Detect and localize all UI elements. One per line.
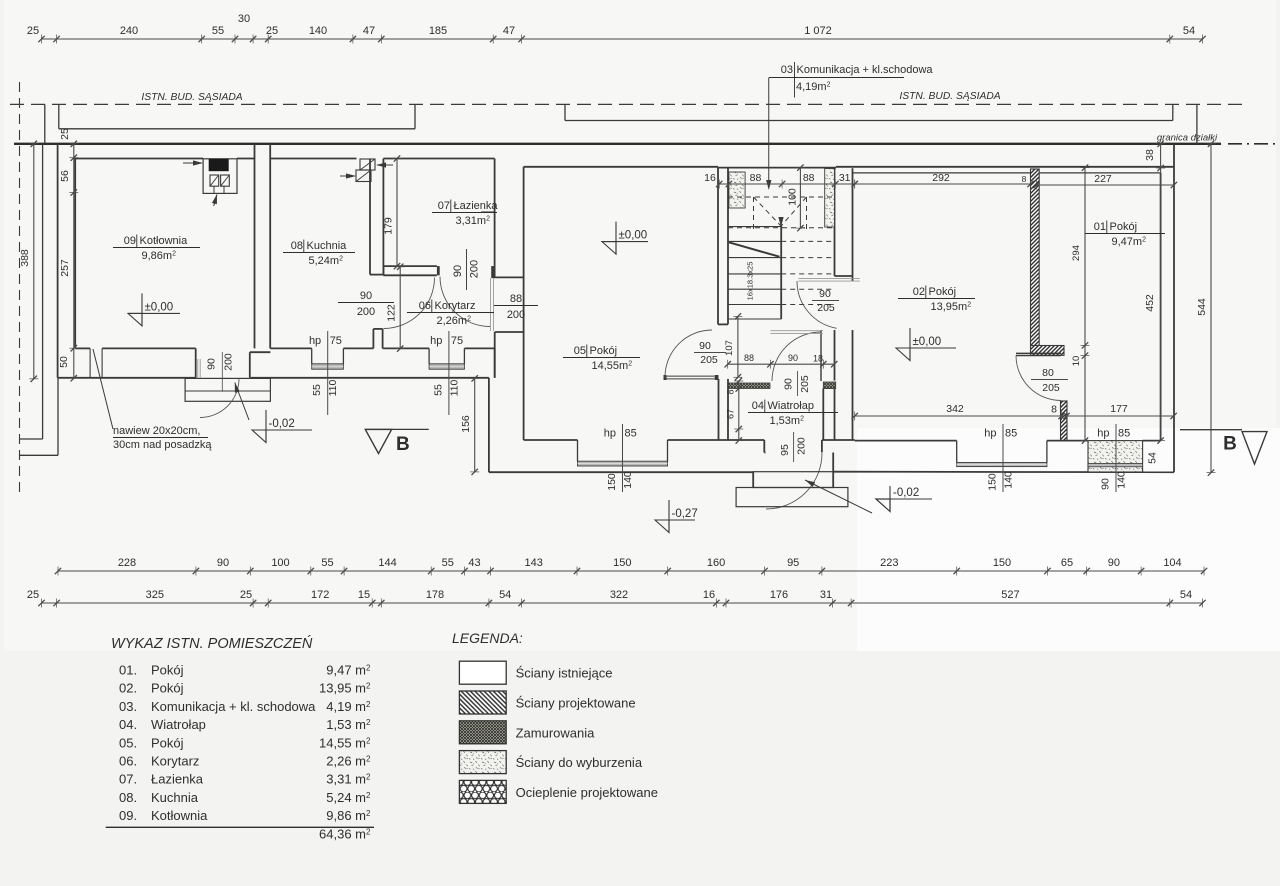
svg-text:hp: hp [309, 335, 321, 347]
svg-text:150: 150 [606, 473, 618, 491]
svg-text:55: 55 [442, 557, 454, 569]
svg-text:Pokój: Pokój [929, 286, 957, 298]
svg-text:Komunikacja + kl.schodowa: Komunikacja + kl.schodowa [797, 64, 934, 76]
svg-text:03: 03 [781, 64, 793, 76]
svg-text:88: 88 [750, 172, 762, 184]
svg-text:200: 200 [223, 353, 235, 371]
svg-text:342: 342 [946, 403, 964, 415]
svg-text:388: 388 [19, 249, 31, 267]
svg-text:8: 8 [1022, 174, 1027, 184]
svg-text:Ściany projektowane: Ściany projektowane [516, 696, 636, 711]
svg-text:88: 88 [803, 172, 815, 184]
svg-text:±0,00: ±0,00 [145, 301, 174, 313]
svg-text:2: 2 [366, 736, 371, 745]
svg-text:85: 85 [625, 428, 637, 440]
svg-text:2: 2 [366, 809, 371, 818]
svg-text:1 072: 1 072 [804, 25, 832, 37]
svg-text:54: 54 [1183, 25, 1195, 37]
svg-text:-0,02: -0,02 [893, 487, 919, 499]
svg-text:88: 88 [744, 353, 754, 363]
svg-text:322: 322 [610, 589, 628, 601]
svg-text:08: 08 [291, 240, 303, 252]
svg-text:110: 110 [327, 379, 339, 396]
svg-text:95: 95 [779, 444, 791, 456]
svg-text:3,31m2: 3,31m2 [456, 215, 491, 227]
svg-text:90: 90 [1100, 478, 1112, 490]
svg-text:90: 90 [788, 353, 798, 363]
svg-text:13,95m2: 13,95m2 [931, 301, 972, 313]
svg-text:200: 200 [507, 309, 525, 321]
svg-text:9,86m2: 9,86m2 [142, 250, 177, 262]
svg-text:8: 8 [726, 389, 736, 394]
svg-text:325: 325 [146, 589, 164, 601]
svg-text:144: 144 [378, 557, 396, 569]
svg-text:2: 2 [366, 682, 371, 691]
svg-text:4,19m2: 4,19m2 [796, 81, 831, 93]
svg-text:80: 80 [1042, 367, 1054, 379]
svg-text:Korytarz: Korytarz [435, 300, 476, 312]
svg-text:-0,27: -0,27 [672, 508, 698, 520]
svg-text:178: 178 [426, 589, 444, 601]
svg-text:85: 85 [1005, 428, 1017, 440]
svg-text:150: 150 [613, 557, 631, 569]
svg-text:Pokój: Pokój [1110, 221, 1138, 233]
svg-text:257: 257 [59, 259, 71, 277]
svg-text:75: 75 [451, 335, 463, 347]
svg-text:200: 200 [469, 260, 481, 278]
svg-text:hp: hp [430, 335, 442, 347]
svg-text:B: B [396, 434, 410, 455]
svg-text:2: 2 [366, 773, 371, 782]
svg-text:527: 527 [1001, 589, 1019, 601]
svg-text:Kuchnia: Kuchnia [151, 790, 199, 805]
svg-text:2: 2 [366, 718, 371, 727]
svg-text:Kotłownia: Kotłownia [151, 808, 208, 823]
svg-text:Pokój: Pokój [151, 681, 184, 696]
svg-text:140: 140 [1003, 471, 1015, 489]
svg-text:100: 100 [271, 557, 289, 569]
svg-text:02.: 02. [119, 681, 137, 696]
svg-text:294: 294 [1071, 245, 1082, 261]
svg-text:179: 179 [383, 217, 395, 235]
svg-text:03.: 03. [119, 699, 137, 714]
svg-text:Kotłownia: Kotłownia [140, 235, 189, 247]
svg-text:240: 240 [120, 25, 138, 37]
svg-text:14,55 m: 14,55 m [319, 735, 366, 750]
svg-text:30: 30 [238, 13, 250, 25]
svg-text:452: 452 [1144, 294, 1156, 312]
svg-text:185: 185 [429, 25, 447, 37]
svg-text:B: B [1223, 434, 1237, 455]
svg-text:90: 90 [699, 340, 711, 352]
svg-text:9,47m2: 9,47m2 [1112, 236, 1147, 248]
svg-text:104: 104 [1163, 557, 1181, 569]
svg-text:-0,02: -0,02 [269, 418, 295, 430]
svg-text:8: 8 [1051, 404, 1057, 416]
svg-text:Kuchnia: Kuchnia [307, 240, 348, 252]
svg-text:156: 156 [460, 415, 472, 433]
svg-text:205: 205 [817, 302, 835, 314]
svg-text:LEGENDA:: LEGENDA: [452, 630, 523, 646]
svg-text:90: 90 [819, 288, 831, 300]
svg-text:55: 55 [212, 25, 224, 37]
svg-text:07.: 07. [119, 772, 137, 787]
svg-text:25: 25 [59, 128, 71, 140]
svg-text:228: 228 [118, 557, 136, 569]
svg-text:140: 140 [622, 471, 634, 489]
svg-text:9,47 m: 9,47 m [326, 663, 366, 678]
svg-text:25: 25 [27, 25, 39, 37]
svg-text:544: 544 [1196, 298, 1208, 316]
svg-text:200: 200 [795, 437, 807, 455]
svg-text:14,55m2: 14,55m2 [592, 360, 633, 372]
svg-text:04.: 04. [119, 717, 137, 732]
svg-text:Łazienka: Łazienka [454, 200, 499, 212]
svg-text:16: 16 [704, 172, 716, 184]
svg-text:54: 54 [499, 589, 511, 601]
svg-text:90: 90 [217, 557, 229, 569]
svg-text:140: 140 [309, 25, 327, 37]
svg-text:2: 2 [366, 828, 371, 837]
svg-text:200: 200 [357, 306, 375, 318]
svg-text:Ocieplenie projektowane: Ocieplenie projektowane [516, 785, 658, 800]
svg-text:Wiatrołap: Wiatrołap [768, 400, 814, 412]
svg-text:47: 47 [363, 25, 375, 37]
svg-text:2: 2 [366, 664, 371, 673]
svg-text:4,19 m: 4,19 m [326, 699, 366, 714]
svg-text:140: 140 [1116, 471, 1128, 489]
svg-text:08.: 08. [119, 790, 137, 805]
svg-text:292: 292 [932, 172, 950, 184]
svg-text:granica działki: granica działki [1157, 133, 1218, 144]
svg-text:13,95 m: 13,95 m [319, 681, 366, 696]
svg-text:64,36 m: 64,36 m [319, 827, 366, 842]
svg-text:09: 09 [124, 235, 136, 247]
svg-text:2,26m2: 2,26m2 [437, 315, 472, 327]
svg-text:31: 31 [839, 172, 851, 184]
svg-text:ISTN. BUD. SĄSIADA: ISTN. BUD. SĄSIADA [141, 92, 242, 103]
svg-text:07: 07 [438, 200, 450, 212]
svg-text:Wiatrołap: Wiatrołap [151, 717, 206, 732]
svg-text:54: 54 [1147, 452, 1159, 464]
svg-text:110: 110 [448, 379, 460, 396]
svg-text:25: 25 [266, 25, 278, 37]
svg-text:90: 90 [452, 265, 464, 277]
svg-text:177: 177 [1110, 403, 1128, 415]
svg-text:Ściany do wyburzenia: Ściany do wyburzenia [516, 755, 643, 770]
svg-text:31: 31 [820, 589, 832, 601]
svg-text:06.: 06. [119, 754, 137, 769]
svg-text:205: 205 [1042, 382, 1060, 394]
svg-text:38: 38 [1144, 149, 1156, 161]
svg-text:15: 15 [358, 589, 370, 601]
svg-text:18: 18 [813, 354, 823, 364]
svg-text:30cm nad posadzką: 30cm nad posadzką [113, 439, 212, 451]
svg-text:107: 107 [724, 340, 735, 356]
svg-text:150: 150 [993, 557, 1011, 569]
svg-text:nawiew 20x20cm,: nawiew 20x20cm, [113, 425, 200, 437]
svg-text:2: 2 [366, 700, 371, 709]
svg-text:75: 75 [330, 335, 342, 347]
svg-text:25: 25 [27, 589, 39, 601]
svg-text:5,24 m: 5,24 m [326, 790, 366, 805]
svg-text:Komunikacja + kl. schodowa: Komunikacja + kl. schodowa [151, 699, 316, 714]
svg-text:205: 205 [700, 354, 718, 366]
svg-text:Zamurowania: Zamurowania [516, 725, 596, 740]
svg-text:06: 06 [419, 300, 431, 312]
svg-text:Korytarz: Korytarz [151, 754, 199, 769]
svg-text:3,31 m: 3,31 m [326, 772, 366, 787]
svg-text:56: 56 [59, 170, 71, 182]
svg-text:227: 227 [1094, 173, 1112, 185]
svg-text:2: 2 [366, 791, 371, 800]
svg-text:67: 67 [726, 409, 736, 419]
svg-text:25: 25 [240, 589, 252, 601]
svg-text:05.: 05. [119, 735, 137, 750]
svg-text:90: 90 [1108, 557, 1120, 569]
svg-text:55: 55 [311, 384, 323, 396]
svg-text:95: 95 [787, 557, 799, 569]
svg-text:05: 05 [574, 345, 586, 357]
svg-text:16: 16 [703, 589, 715, 601]
svg-text:176: 176 [770, 589, 788, 601]
svg-text:172: 172 [311, 589, 329, 601]
svg-text:160: 160 [707, 557, 725, 569]
svg-text:Pokój: Pokój [151, 663, 184, 678]
svg-text:Pokój: Pokój [151, 735, 184, 750]
svg-text:150: 150 [987, 473, 999, 491]
svg-text:ISTN. BUD. SĄSIADA: ISTN. BUD. SĄSIADA [899, 91, 1000, 102]
svg-text:55: 55 [321, 557, 333, 569]
svg-text:2,26 m: 2,26 m [326, 754, 366, 769]
svg-text:Ściany istniejące: Ściany istniejące [516, 666, 613, 681]
svg-text:±0,00: ±0,00 [913, 336, 942, 348]
svg-text:hp: hp [984, 428, 996, 440]
svg-text:1,53 m: 1,53 m [326, 717, 366, 732]
svg-text:04: 04 [752, 400, 764, 412]
svg-text:50: 50 [58, 356, 70, 368]
svg-text:WYKAZ ISTN. POMIESZCZEŃ: WYKAZ ISTN. POMIESZCZEŃ [111, 635, 313, 652]
svg-text:90: 90 [360, 290, 372, 302]
svg-text:205: 205 [799, 375, 811, 393]
svg-text:54: 54 [1180, 589, 1192, 601]
svg-text:90: 90 [783, 378, 795, 390]
svg-text:88: 88 [510, 293, 522, 305]
svg-text:85: 85 [1118, 428, 1130, 440]
svg-text:02: 02 [913, 286, 925, 298]
svg-text:9,86 m: 9,86 m [326, 808, 366, 823]
svg-text:±0,00: ±0,00 [619, 230, 648, 242]
svg-text:hp: hp [1097, 428, 1109, 440]
svg-text:55: 55 [432, 384, 444, 396]
svg-text:01: 01 [1094, 221, 1106, 233]
svg-text:65: 65 [1061, 557, 1073, 569]
svg-text:09.: 09. [119, 808, 137, 823]
svg-text:hp: hp [604, 428, 616, 440]
svg-text:43: 43 [468, 557, 480, 569]
svg-text:Łazienka: Łazienka [151, 772, 204, 787]
svg-text:16x18.3x25: 16x18.3x25 [746, 262, 755, 301]
svg-text:100: 100 [786, 188, 798, 206]
svg-text:1,53m2: 1,53m2 [770, 415, 805, 427]
svg-text:90: 90 [206, 358, 218, 370]
svg-text:223: 223 [880, 557, 898, 569]
svg-text:Pokój: Pokój [590, 345, 618, 357]
svg-text:47: 47 [503, 25, 515, 37]
svg-text:10: 10 [1071, 356, 1082, 367]
svg-text:2: 2 [366, 755, 371, 764]
svg-text:122: 122 [386, 304, 398, 322]
svg-text:01.: 01. [119, 663, 137, 678]
svg-text:143: 143 [525, 557, 543, 569]
svg-text:5,24m2: 5,24m2 [309, 255, 344, 267]
